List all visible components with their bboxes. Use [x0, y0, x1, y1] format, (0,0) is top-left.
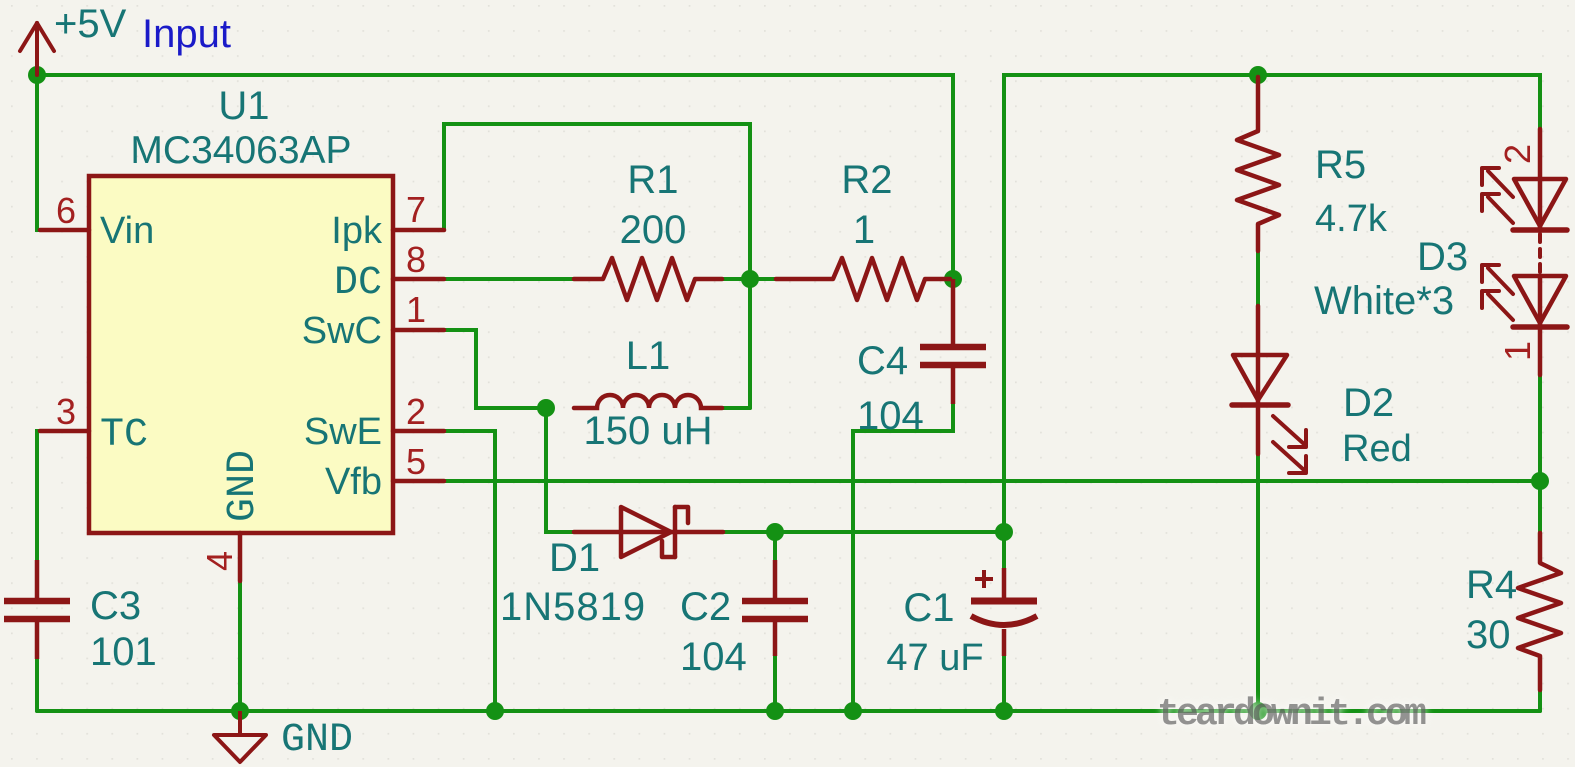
capacitor C3 — [4, 560, 70, 659]
svg-text:C1: C1 — [903, 586, 954, 630]
svg-text:2: 2 — [1497, 144, 1538, 164]
svg-text:6: 6 — [56, 190, 76, 231]
LED D3 unit B (pin 1) — [1482, 265, 1567, 375]
pin 2 SwE stub — [393, 429, 444, 434]
svg-text:MC34063AP: MC34063AP — [130, 129, 351, 172]
wire pin 1 SwC to L1 left node — [444, 330, 546, 408]
wire ground rail — [37, 709, 1540, 713]
svg-text:R2: R2 — [841, 158, 892, 202]
wire node to R2 left — [750, 277, 776, 281]
junction rail C4 — [844, 702, 862, 720]
junction R2/C4/+5V node — [944, 270, 962, 288]
svg-text:4: 4 — [199, 551, 240, 571]
svg-text:Vin: Vin — [100, 210, 154, 252]
junction output/C1 node — [995, 523, 1013, 541]
wire C1 bottom to rail — [1002, 655, 1006, 711]
pin 7 Ipk stub — [393, 228, 444, 233]
resistor R4 — [1518, 533, 1561, 690]
wire SwC/L1 node down to D1 anode — [546, 408, 574, 532]
junction rail SwE — [486, 702, 504, 720]
wire pin 8 DC to R1 left — [444, 277, 574, 281]
wire feedback node to R4 top — [1538, 481, 1542, 533]
svg-text:SwE: SwE — [304, 411, 382, 453]
svg-text:D1: D1 — [549, 536, 600, 580]
pin 4 GND stub — [238, 533, 243, 581]
junction rail GND — [231, 702, 249, 720]
resistor R1 — [574, 258, 722, 300]
wire C1 top stub — [1002, 532, 1006, 569]
op-amp U1 MC34063AP body — [89, 176, 393, 533]
svg-text:U1: U1 — [218, 84, 269, 128]
wire C2 bottom to rail — [773, 655, 777, 711]
watermark teardownit.com — [1157, 693, 1426, 736]
wire IC GND pin down to rail — [238, 581, 242, 711]
wire C4 bottom to ground rail — [853, 404, 953, 711]
pin 1 SwC stub — [393, 328, 444, 333]
svg-text:Red: Red — [1342, 428, 1412, 470]
wire R5 bottom to D2 anode — [1256, 251, 1260, 306]
junction rail C2 — [766, 702, 784, 720]
pin 3 TC stub — [40, 429, 89, 434]
wire R4 bottom to rail corner — [1538, 690, 1542, 711]
junction +5V at top left — [28, 66, 46, 84]
svg-text:TC: TC — [100, 413, 148, 458]
wire D3 bottom to feedback node — [1538, 375, 1542, 481]
inductor L1 — [574, 395, 722, 408]
diode D1 1N5819 schottky — [574, 507, 723, 557]
svg-text:Input: Input — [142, 12, 231, 56]
junction rail C1 — [995, 702, 1013, 720]
wire pin 7 Ipk up and over to R1/R2 node — [444, 124, 750, 408]
junction SwC/L1/D1 node — [537, 399, 555, 417]
svg-text:SwC: SwC — [302, 310, 382, 352]
wire R1 right to node — [722, 277, 750, 281]
svg-text:1: 1 — [853, 208, 875, 252]
pin 8 DC stub — [393, 277, 444, 282]
wire D1 cathode to C2 node — [723, 530, 775, 534]
wire C2 top stub — [773, 532, 777, 561]
svg-text:GND: GND — [221, 450, 266, 522]
svg-text:104: 104 — [680, 635, 747, 679]
svg-text:Vfb: Vfb — [325, 461, 382, 503]
wire C2 node to C1 node — [775, 530, 1004, 534]
svg-text:1: 1 — [406, 289, 426, 330]
wire +5V down to pin 6 Vin — [37, 75, 46, 230]
svg-text:30: 30 — [1466, 613, 1511, 657]
capacitor C1 polarized — [971, 568, 1037, 656]
svg-text:4.7k: 4.7k — [1315, 198, 1388, 240]
svg-text:C4: C4 — [857, 339, 908, 383]
svg-text:White*3: White*3 — [1314, 279, 1454, 323]
pin 6 Vin stub — [40, 228, 89, 233]
junction output rail R5 tap — [1249, 66, 1267, 84]
capacitor C4 — [920, 279, 986, 404]
wire output node vertical and top output rail — [1004, 75, 1540, 532]
junction feedback/D3/R4 node — [1531, 472, 1549, 490]
svg-text:47 uF: 47 uF — [886, 637, 983, 679]
svg-text:8: 8 — [406, 239, 426, 280]
wire L1 right covered by vertical — [722, 406, 750, 410]
svg-text:+5V: +5V — [54, 2, 127, 46]
svg-text:5: 5 — [406, 441, 426, 482]
svg-text:L1: L1 — [626, 334, 671, 378]
svg-text:DC: DC — [334, 261, 382, 306]
pin 5 Vfb stub — [393, 479, 444, 484]
svg-text:R1: R1 — [627, 158, 678, 202]
wire C3 bottom to ground rail corner — [35, 658, 39, 711]
power symbol +5V arrow — [20, 23, 54, 75]
svg-text:2: 2 — [406, 391, 426, 432]
svg-text:C3: C3 — [90, 584, 141, 628]
LED D2 Red — [1232, 306, 1306, 473]
svg-text:104: 104 — [857, 394, 924, 438]
svg-text:R4: R4 — [1466, 563, 1517, 607]
svg-text:Ipk: Ipk — [331, 210, 383, 252]
svg-text:200: 200 — [620, 208, 687, 252]
svg-text:1N5819: 1N5819 — [500, 585, 646, 629]
wire D2 cathode down to ground rail — [1256, 454, 1260, 711]
wire pin 2 SwE down to ground rail — [443, 431, 495, 711]
svg-text:teardownit.com: teardownit.com — [1157, 693, 1426, 736]
svg-text:D3: D3 — [1417, 235, 1468, 279]
junction rail D2 — [1249, 702, 1267, 720]
wire +5V top input rail to R2/C4 node — [37, 75, 953, 279]
svg-text:D2: D2 — [1343, 381, 1394, 425]
svg-text:7: 7 — [406, 189, 426, 230]
svg-text:3: 3 — [56, 391, 76, 432]
svg-text:1: 1 — [1497, 341, 1538, 361]
wire pin 3 TC to C3 — [37, 431, 46, 561]
svg-text:R5: R5 — [1315, 143, 1366, 187]
wire C4 top stub — [951, 279, 955, 300]
svg-text:150 uH: 150 uH — [584, 409, 713, 453]
capacitor C2 — [742, 560, 808, 656]
wire pin 5 Vfb feedback line to right edge — [443, 479, 1540, 483]
svg-text:GND: GND — [281, 718, 353, 763]
LED D3 unit A (pin 2) — [1482, 129, 1567, 274]
svg-text:101: 101 — [90, 630, 157, 674]
resistor R2 — [776, 258, 950, 300]
resistor R5 — [1237, 77, 1279, 251]
junction D1/C2 node — [766, 523, 784, 541]
junction R1/R2 node — [741, 270, 759, 288]
ground symbol — [214, 711, 266, 762]
svg-text:C2: C2 — [680, 585, 731, 629]
